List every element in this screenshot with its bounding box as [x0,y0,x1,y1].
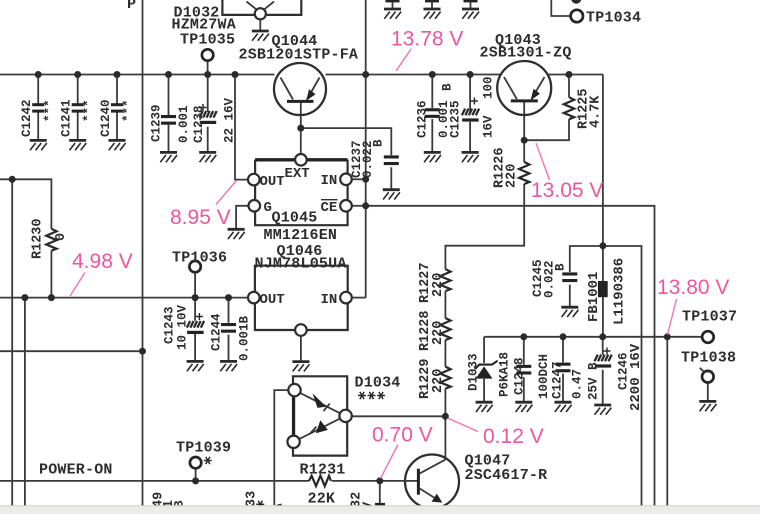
wire 13.80V rail [484,336,702,338]
svg-text:0.70 V: 0.70 V [372,424,433,447]
svg-text:13.05 V: 13.05 V [531,179,603,202]
ground top cap stub 1 [384,0,401,19]
test point TP1039 [190,457,201,468]
capacitor C1235 electrolytic [462,98,479,122]
wire R1227-R1228 link [444,291,446,318]
pin D1034 bottom-left [287,436,299,448]
wire TP1036 stem [194,272,196,297]
svg-text:FB1001: FB1001 [586,272,602,322]
test point TP1036 [189,261,200,272]
ground C1241 [69,140,86,150]
IC Q1045 MM1216EN box [255,160,348,225]
wire Q1045 G pin to ground [236,206,248,229]
svg-text:C1247: C1247 [551,361,565,399]
ground Q1045 G pin [228,229,245,239]
svg-text:D1034: D1034 [355,375,401,392]
label TP1039 asterisk [204,457,212,464]
pin GND of Q1046 [295,324,307,336]
svg-text:B: B [554,263,568,271]
wire Q1045 IN pin to vertical [352,178,366,180]
svg-text:100DCH: 100DCH [537,354,551,399]
svg-text:22K: 22K [308,491,336,508]
svg-text:MM1216EN: MM1216EN [264,227,338,244]
svg-text:16V: 16V [482,115,496,138]
svg-text:220: 220 [505,164,520,188]
wire C1241 leads [77,75,79,141]
wire vertical x=365.7 from top to Q1046 IN [365,0,367,298]
svg-text:TP1039: TP1039 [176,440,231,457]
ground C1246 [594,405,611,415]
pin CE of Q1045 [340,200,352,212]
wire C1237 bottom lead [390,167,392,189]
svg-text:C1242: C1242 [20,99,34,137]
pin IN of Q1046 [340,292,352,304]
ground C1242 [30,140,47,150]
capacitor C1239 [161,115,176,125]
transistor Q1044 [274,63,326,115]
wire branch y=128 to C1237 [301,128,392,155]
wire C1243 leads [194,298,196,361]
ferrite bead FB1001 [598,281,608,297]
wire D1034 top-left pin elbow down [274,390,288,505]
wire C1245 branch y=246 to x=641 vertical [570,246,642,514]
svg-text:100: 100 [482,76,496,99]
svg-text:C1235: C1235 [449,100,463,138]
wire R1226 bottom lead elbow to R1227 chain [445,184,524,269]
ground C1245 [561,307,578,317]
svg-text:IN: IN [321,292,338,308]
svg-text:2SB1201STP-FA: 2SB1201STP-FA [239,47,359,64]
ground C1237 [383,190,400,200]
diode D1034 lower: anode right pin, cathode bottom-left pin [294,416,346,442]
svg-text:C1243: C1243 [163,306,177,344]
svg-text:C1238: C1238 [192,105,206,143]
svg-text:IN: IN [321,173,338,189]
capacitor C1247 [556,363,571,373]
transistor Q1043 [497,61,551,115]
svg-text:POWER-ON: POWER-ON [39,462,113,479]
transistor Q1047 [405,455,459,509]
svg-text:TP1038: TP1038 [681,350,736,367]
svg-text:25V B: 25V B [587,362,601,400]
svg-text:C1239: C1239 [150,104,164,142]
wire C1235 leads [469,75,471,153]
svg-text:B: B [372,139,386,147]
svg-text:NJM78L05UA: NJM78L05UA [255,256,347,273]
capacitor C1245 [562,272,577,282]
svg-text:R1230: R1230 [31,218,46,259]
IC Q1046 NJM78L05UA box [255,266,348,330]
svg-text:2200 16V: 2200 16V [628,343,644,411]
zener diode D1033 P6KA18 [475,361,498,379]
test point TP1038 with tick [700,368,714,383]
resistor R1228 220 [440,318,450,340]
svg-text:***: *** [43,99,57,122]
svg-text:P6KA18: P6KA18 [498,352,512,397]
svg-text:13.78 V: 13.78 V [391,28,463,51]
resistor R1229 220 [440,367,450,389]
svg-text:22 16V: 22 16V [223,97,237,143]
wire TP1034 elbow [551,0,570,16]
pin G of Q1045 [249,200,261,212]
capacitor C1240 [111,103,123,112]
svg-text:EXT: EXT [285,166,310,182]
capacitor C1237 [384,155,399,165]
ground TP1038 [699,401,716,411]
wire vertical x=12 down to bottom [11,179,13,514]
svg-text:***: *** [82,99,96,122]
svg-text:4.7K: 4.7K [589,95,604,128]
ground Q1046 GND [292,362,309,372]
svg-text:OUT: OUT [260,174,285,190]
wire vertical x=142.5 full height [142,0,144,514]
wire TP1039 stem [195,468,197,481]
wire upper-left branch y=179 into R1230 [0,179,51,228]
svg-text:4.98 V: 4.98 V [72,250,133,273]
diode block D1032 (cut at top edge) [222,0,301,31]
resistor R1226 220 [519,162,529,184]
wire C1242 leads [37,75,39,141]
svg-text:L1190386: L1190386 [612,258,628,325]
diode D1034 upper: anode top-left pin, cathode right pin [295,390,346,416]
capacitor C1236 [425,108,440,118]
pin EXT of Q1045 [295,154,307,166]
svg-text:***: *** [122,99,136,122]
test point TP1035 [202,49,213,60]
svg-text:220: 220 [431,273,446,297]
pin IN of Q1045 [340,174,352,186]
resistor R1231 22K horizontal [309,476,331,486]
wire bus to Q1045 OUT pin via x=235 [235,75,248,180]
wire C1244 leads [228,298,230,361]
wire C1239 leads [168,75,170,153]
ground C1244 [220,361,237,371]
test point TP1037 [702,331,714,343]
capacitor C1241 [72,103,84,112]
svg-text:0.001: 0.001 [177,105,191,143]
capacitor C1242 [32,103,44,112]
ground C1238 [199,152,216,162]
diode block D1034 box [293,376,347,455]
wire vertical x=25 from 4.98V bus to bottom [24,298,26,514]
wire POWER-ON bus y=481 right of R1231 to Q1047 base [332,480,406,482]
test point TP1034 [571,10,583,22]
label D1034 value *** [358,392,385,399]
wire R1225 leads + link to emitter node [524,75,569,141]
ground C1248 [515,402,532,412]
wire node to Q1047 collector [444,416,446,459]
node junction dots [9,71,671,484]
capacitor C1246 electrolytic [595,348,612,368]
svg-text:Q1045: Q1045 [272,210,318,227]
svg-text:R1231: R1231 [300,462,346,479]
wire C1247 leads [562,337,564,402]
wire 13.78V bus mid segment [326,74,502,76]
svg-text:0.12 V: 0.12 V [483,425,544,448]
ground C1235 [462,152,479,162]
svg-text:OUT: OUT [260,292,285,308]
wire R1228-R1229 link [444,340,446,367]
resistor R1225 4.7K [564,97,574,119]
svg-text:13.80 V: 13.80 V [657,276,729,299]
capacitor C1243 electrolytic [187,313,204,334]
capacitor C1248 [516,365,531,375]
ground D1032 [252,31,269,41]
wire Q1043 base stem to emitter node [523,102,525,140]
svg-text:TP1035: TP1035 [180,32,235,49]
label asterisk near 33 [256,501,264,508]
ground D1033 [476,402,493,412]
svg-text:D1033: D1033 [467,353,481,391]
wire D1033 leads [483,337,485,402]
capacitor C1238 electrolytic [200,104,217,124]
resistor R1230 value 0 [46,229,56,251]
wire Q1045 CE pin junction [352,205,366,207]
pin OUT of Q1045 [248,174,260,186]
ground top cap stub 2 [424,0,441,19]
wire 13.78V bus right segment to corner [548,74,604,76]
svg-text:CE: CE [321,200,338,216]
svg-text:P: P [127,0,136,13]
wire 4.98V bus [0,297,248,299]
wire POWER-ON bus y=481 left of R1231 [0,480,309,482]
capacitor C1244 [221,323,236,333]
wire R1229 bottom to node 0.12V [444,389,446,417]
wire C1240 leads [116,75,118,141]
svg-text:C1244: C1244 [210,313,224,351]
wire D1034 output to node [352,415,445,417]
wire C1238 leads [207,75,209,153]
wire main 13.78V bus left segment [0,74,275,76]
svg-text:C1236: C1236 [416,100,430,138]
wire C1245 bottom lead [569,285,571,307]
pin D1034 right [339,410,351,422]
svg-text:2SB1301-ZQ: 2SB1301-ZQ [480,45,572,62]
svg-text:TP1034: TP1034 [586,10,641,27]
svg-text:C1241: C1241 [60,99,74,137]
wire Q1046 GND stem [300,336,302,361]
wire stub below 0.70V node with plate [379,481,381,504]
svg-text:C1240: C1240 [99,99,113,137]
svg-text:220: 220 [431,369,446,393]
svg-text:8.95 V: 8.95 V [170,206,231,229]
svg-text:B: B [441,83,455,91]
pin D1034 top-left [288,384,300,396]
wire Q1046 IN pin elbow [352,297,366,299]
ground C1243 [187,361,204,371]
test point TP1033 partial at top edge [571,0,581,4]
bottom window edge band [0,506,760,514]
wire C1248 leads [523,337,525,402]
ground C1239 [160,152,177,162]
svg-text:0: 0 [54,233,69,241]
pin OUT of Q1046 [248,292,260,304]
ground top cap stub 3 [462,0,479,19]
svg-text:220: 220 [431,321,446,345]
svg-text:C1248: C1248 [513,357,527,395]
svg-text:TP1036: TP1036 [172,250,227,267]
wire TP1038 ground stem [707,382,709,401]
wire C1236 leads [431,75,433,153]
ground C1240 [109,140,126,150]
wire y=351 left branch [0,350,143,352]
wire CE long rail y=205.8 to right then down [366,206,655,514]
svg-text:0.001B: 0.001B [238,315,252,361]
wire vertical x=667 below rail [666,337,668,514]
svg-text:0.47: 0.47 [571,369,585,399]
resistor R1227 220 [440,269,450,291]
wire Q1044 base stem down to EXT [300,103,302,155]
wire vertical x=603 from bus to 13.80V rail through FB1001 [602,75,604,338]
ground C1236 [424,152,441,162]
ground C1247 [555,402,572,412]
wire C1246 leads [602,337,604,405]
wire R1226 top lead [523,140,525,162]
wire D1034 elbow foot [268,504,282,508]
svg-text:TP1037: TP1037 [682,309,737,326]
svg-text:2SC4617-R: 2SC4617-R [465,467,548,484]
wire R1230 bottom lead to 4.98V bus [50,251,52,298]
wire TP1035 stem [207,61,209,75]
svg-text:10 10V: 10 10V [176,304,190,350]
